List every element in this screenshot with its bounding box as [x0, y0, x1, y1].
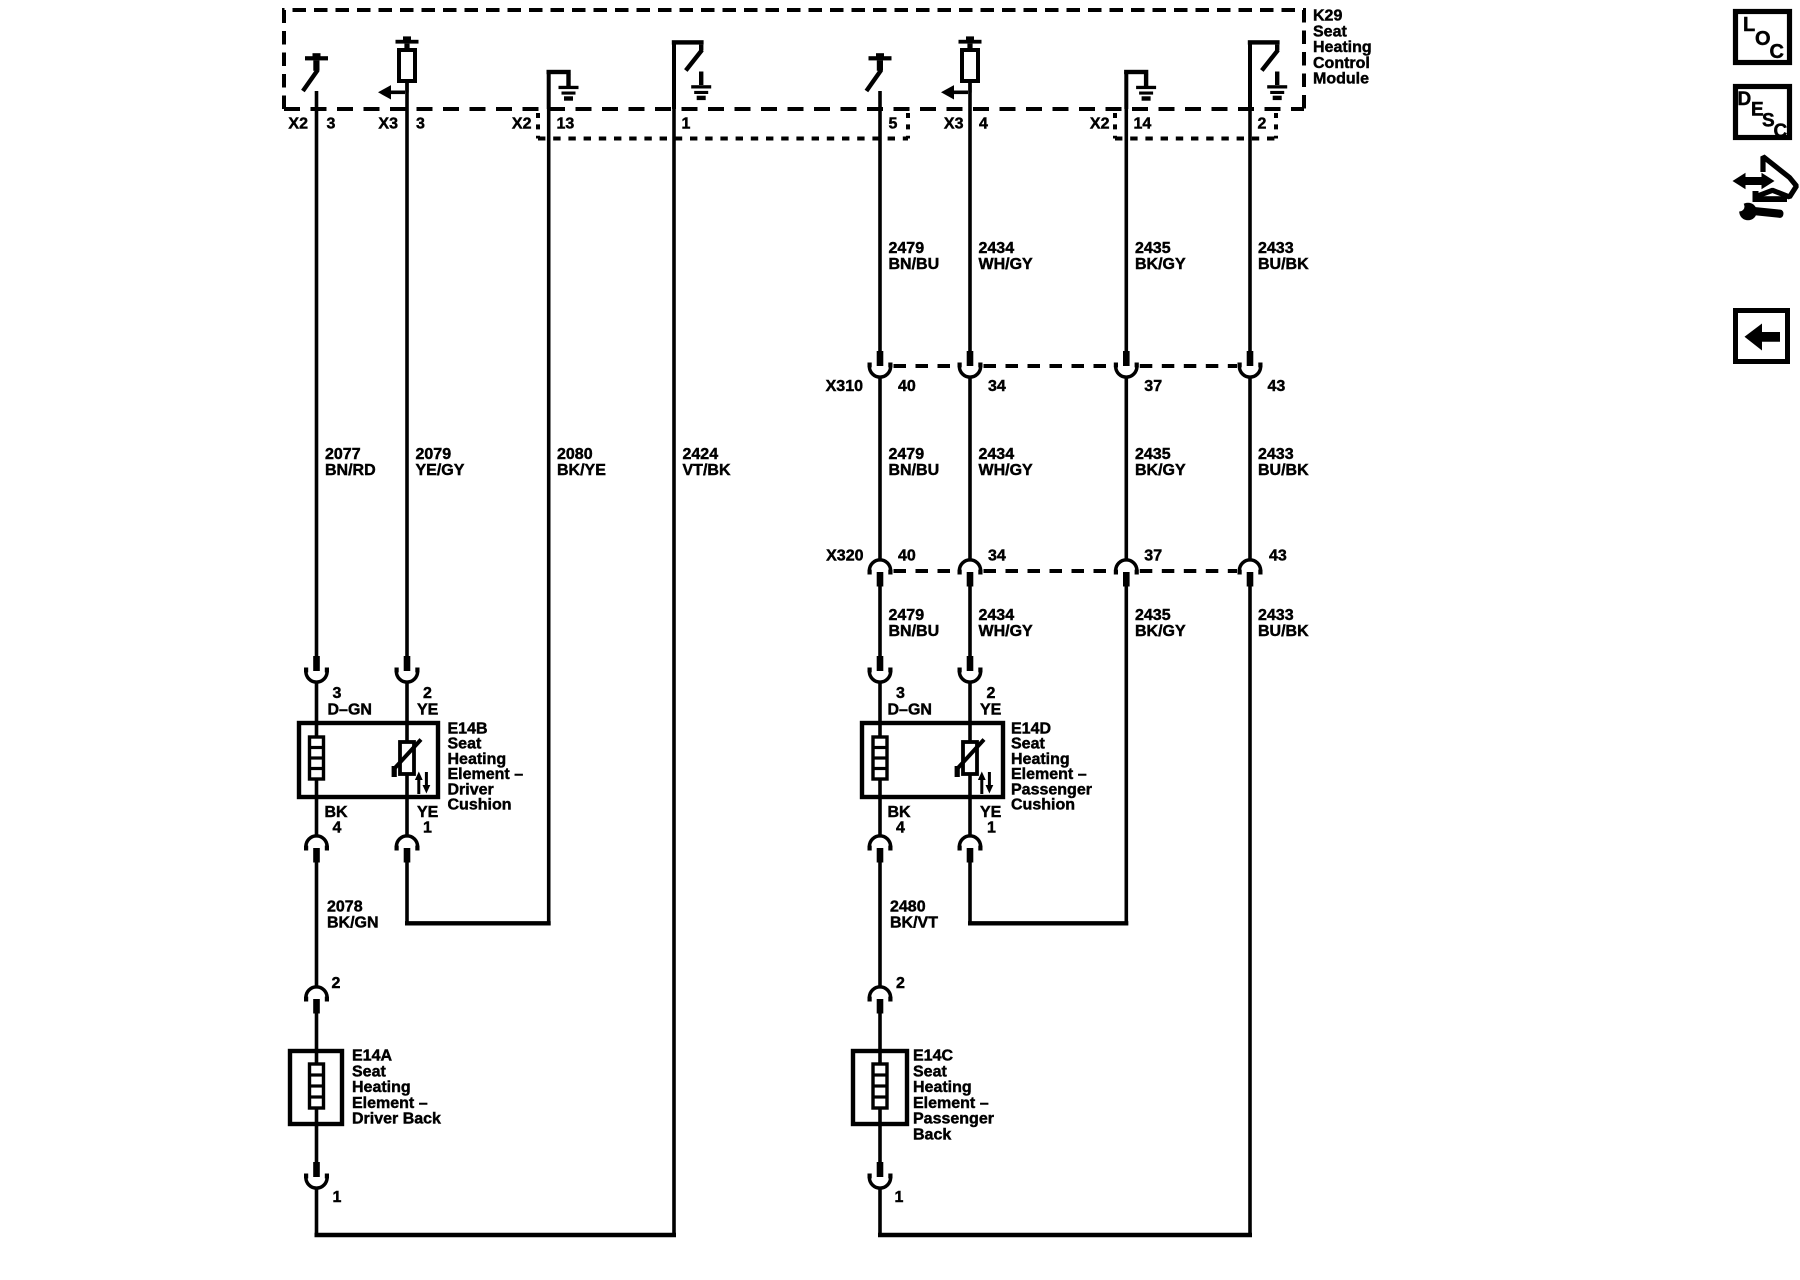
switch to ground inside module at pin X2-2 — [1248, 40, 1287, 100]
connector X2 dotted box (pins 13, 1, 5) — [538, 113, 908, 139]
wire 2433 BU/BK X310 to X320 — [1248, 378, 1252, 561]
resistor with arrow inside module at pin X3-3 — [378, 36, 419, 99]
svg-text:2434: 2434 — [979, 446, 1015, 463]
label E14A Seat Heating Element - Driver Back — [352, 1048, 441, 1128]
wire 2080 BK/YE from X2-13 down — [547, 109, 551, 925]
svg-text:BK/GN: BK/GN — [327, 915, 379, 932]
svg-text:YE: YE — [980, 702, 1002, 719]
svg-text:X2: X2 — [288, 116, 308, 133]
wire 2079 YE/GY from X3-3 to E14B pin 2 — [405, 109, 409, 656]
svg-text:Element –: Element – — [352, 1095, 428, 1112]
inline connector E14B pin 3 — [304, 656, 329, 682]
svg-text:1: 1 — [895, 1189, 904, 1206]
switch inside module at pin X2-5 — [866, 53, 891, 91]
label E14B pin 1 YE — [417, 804, 439, 837]
svg-text:5: 5 — [889, 116, 898, 133]
svg-text:3: 3 — [333, 685, 342, 702]
svg-text:2434: 2434 — [979, 607, 1015, 624]
label E14D pin 1 YE — [980, 804, 1002, 837]
ground inside module at pin X2-13 — [547, 70, 579, 101]
connector X320 pin 43 — [1238, 560, 1263, 587]
svg-text:2: 2 — [332, 975, 341, 992]
wire 2078 BK/GN E14B pin 4 down — [315, 863, 319, 987]
wire 2434 WH/GY X320 to E14D pin 2 — [968, 586, 972, 656]
svg-text:YE/GY: YE/GY — [416, 462, 465, 479]
wire 2435 BK/GY from X2-14 to X310-37 — [1125, 109, 1129, 352]
wire from switch X2-5 — [878, 91, 882, 109]
wire from box bottom to inline connector — [405, 797, 409, 837]
wire YE loop E14B pin 1 to X2-13 — [405, 863, 551, 926]
svg-text:Driver Back: Driver Back — [352, 1111, 441, 1128]
wire 2433 BU/BK from X2-2 to X310-43 — [1248, 109, 1252, 352]
svg-text:14: 14 — [1134, 116, 1152, 133]
svg-text:3: 3 — [416, 116, 425, 133]
inline connector E14C pin 2 — [868, 987, 893, 1014]
heating element box E14C — [853, 1051, 907, 1124]
heating element symbol E14C — [873, 1064, 887, 1108]
svg-text:BN/BU: BN/BU — [889, 623, 940, 640]
svg-text:BN/RD: BN/RD — [325, 462, 376, 479]
wire 2435 BK/GY X320 down — [1125, 586, 1129, 925]
svg-text:2433: 2433 — [1258, 607, 1294, 624]
svg-text:40: 40 — [898, 548, 916, 565]
svg-text:BK: BK — [888, 804, 912, 821]
svg-text:Cushion: Cushion — [1011, 797, 1075, 814]
svg-text:2080: 2080 — [557, 446, 593, 463]
wire into heating element box — [968, 683, 972, 724]
svg-text:37: 37 — [1144, 378, 1162, 395]
label E14B pin 3 D-GN — [328, 685, 372, 719]
heating element box E14B — [299, 723, 438, 797]
svg-text:37: 37 — [1144, 548, 1162, 565]
svg-text:O: O — [1755, 28, 1771, 50]
inline connector E14B pin 1 — [395, 836, 420, 863]
ground inside module at pin X2-14 — [1124, 70, 1156, 101]
svg-text:34: 34 — [988, 378, 1006, 395]
wire to ground inside module at pin X2-14 — [1124, 72, 1128, 109]
wire from box bottom to inline connector — [878, 797, 882, 837]
wire from switch X2-3 — [315, 91, 319, 109]
wire from switch inside module at pin X2-1 — [672, 42, 676, 109]
heating element box E14A — [290, 1051, 342, 1124]
svg-text:E14A: E14A — [352, 1048, 392, 1065]
thermistor symbol E14D — [955, 740, 984, 778]
connector X310 pin 43 — [1238, 351, 1263, 377]
svg-text:1: 1 — [682, 116, 691, 133]
svg-text:BN/BU: BN/BU — [889, 462, 940, 479]
svg-text:BU/BK: BU/BK — [1258, 623, 1309, 640]
wire into heating element box — [315, 683, 319, 724]
thermistor symbol E14B — [392, 740, 421, 778]
wire E14C pin 1 return to X2-2 — [878, 1189, 1252, 1238]
wire connector to E14A box — [315, 1012, 319, 1051]
connector X320 pin 40 — [868, 560, 893, 587]
wire connector to E14C box — [878, 1012, 882, 1051]
wire 2479 BN/BU X320 to E14D pin 3 — [878, 586, 882, 656]
svg-text:X2: X2 — [512, 116, 532, 133]
module K29 Seat Heating Control Module dashed box — [284, 10, 1304, 109]
svg-text:2424: 2424 — [683, 446, 719, 463]
svg-text:X2: X2 — [1090, 116, 1110, 133]
svg-text:Cushion: Cushion — [448, 797, 512, 814]
label E14B pin 4 BK — [325, 804, 349, 837]
svg-text:34: 34 — [988, 548, 1006, 565]
svg-text:1: 1 — [333, 1189, 342, 1206]
svg-text:1: 1 — [987, 820, 996, 837]
svg-text:BU/BK: BU/BK — [1258, 462, 1309, 479]
wire E14B element to box edges — [317, 723, 408, 797]
svg-text:43: 43 — [1269, 548, 1287, 565]
svg-text:D: D — [1738, 89, 1752, 110]
wire 2424 VT/BK from X2-1 down — [672, 109, 676, 1237]
wire from switch inside module at pin X2-2 — [1248, 42, 1252, 109]
label X2 pin 14 — [1090, 116, 1151, 133]
inline connector E14A pin 1 — [304, 1162, 329, 1188]
wire E14A element to box edges — [315, 1051, 319, 1124]
wire from resistor X3-4 — [968, 81, 972, 109]
connector X320 pin 34 — [958, 560, 983, 587]
svg-text:K29: K29 — [1313, 8, 1342, 25]
svg-text:BK/VT: BK/VT — [890, 915, 938, 932]
svg-text:Heating: Heating — [913, 1079, 972, 1096]
svg-text:WH/GY: WH/GY — [979, 623, 1034, 640]
svg-text:2: 2 — [1258, 116, 1267, 133]
svg-text:X320: X320 — [826, 548, 863, 565]
wire into heating element box — [405, 683, 409, 724]
svg-text:Seat: Seat — [913, 1063, 947, 1080]
svg-text:WH/GY: WH/GY — [979, 256, 1034, 273]
svg-text:BN/BU: BN/BU — [889, 256, 940, 273]
wire from box bottom to inline connector — [968, 797, 972, 837]
svg-text:4: 4 — [333, 820, 342, 837]
svg-text:Module: Module — [1313, 71, 1369, 88]
svg-text:Heating: Heating — [1313, 39, 1372, 56]
svg-text:2434: 2434 — [979, 240, 1015, 257]
svg-text:4: 4 — [979, 116, 988, 133]
svg-text:X310: X310 — [826, 378, 863, 395]
svg-text:2479: 2479 — [889, 607, 925, 624]
heating element box E14D — [862, 723, 1003, 797]
label E14C Seat Heating Element - Passenger Back — [913, 1048, 994, 1144]
svg-text:2079: 2079 — [416, 446, 452, 463]
inline connector E14D pin 4 — [868, 836, 893, 863]
inline connector E14D pin 3 — [868, 656, 893, 682]
wire YE loop E14D pin 1 to X2-14 — [968, 863, 1128, 926]
svg-text:2435: 2435 — [1135, 607, 1171, 624]
wire from resistor X3-3 — [405, 81, 409, 109]
label X2 pin 3 — [288, 116, 335, 133]
inline connector E14B pin 2 — [395, 656, 420, 682]
switch inside module at pin X2-3 — [303, 53, 328, 91]
inline connector E14D pin 1 — [958, 836, 983, 863]
wire E14A pin 1 return to X2-1 — [315, 1189, 677, 1238]
wire 2077 BN/RD from X2-3 to E14B pin 3 — [315, 109, 319, 656]
svg-text:2435: 2435 — [1135, 240, 1171, 257]
heating element symbol E14A — [310, 1064, 324, 1108]
label E14D pin 2 YE — [980, 685, 1002, 719]
inline connector E14B pin 4 — [304, 836, 329, 863]
svg-text:Back: Back — [913, 1127, 951, 1144]
connector X320 pin 37 — [1114, 560, 1139, 587]
svg-text:Seat: Seat — [1313, 23, 1347, 40]
label E14D pin 3 D-GN — [888, 685, 932, 719]
svg-text:Heating: Heating — [352, 1079, 411, 1096]
svg-text:2: 2 — [987, 685, 996, 702]
label X2 pin 13 — [512, 116, 574, 133]
svg-text:D–GN: D–GN — [328, 702, 372, 719]
label E14D pin 4 BK — [888, 804, 912, 837]
inline connector E14A pin 2 — [304, 987, 329, 1014]
svg-text:2479: 2479 — [889, 240, 925, 257]
svg-text:YE: YE — [980, 804, 1002, 821]
svg-text:BK/YE: BK/YE — [557, 462, 606, 479]
svg-text:Control: Control — [1313, 55, 1370, 72]
svg-text:2480: 2480 — [890, 899, 926, 916]
wire E14D element to box edges — [880, 723, 970, 797]
svg-text:BU/BK: BU/BK — [1258, 256, 1309, 273]
svg-text:D–GN: D–GN — [888, 702, 932, 719]
wire 2479 BN/BU X310 to X320 — [878, 378, 882, 561]
icon jump arrows with wrench — [1733, 157, 1797, 221]
svg-text:VT/BK: VT/BK — [683, 462, 731, 479]
wire E14C element to box edges — [878, 1051, 882, 1124]
wire to ground inside module at pin X2-13 — [547, 72, 551, 109]
svg-text:2077: 2077 — [325, 446, 361, 463]
connector X320 dashed line — [894, 569, 1238, 573]
svg-text:X3: X3 — [378, 116, 398, 133]
svg-text:BK/GY: BK/GY — [1135, 623, 1186, 640]
resistor with arrow inside module at pin X3-4 — [941, 36, 982, 99]
label X3 pin 4 — [944, 116, 988, 133]
svg-text:43: 43 — [1268, 378, 1286, 395]
wire E14C box to pin 1 connector — [878, 1124, 882, 1162]
connector X310 pin 37 — [1114, 351, 1139, 377]
connector X310 pin 34 — [958, 351, 983, 377]
svg-text:40: 40 — [898, 378, 916, 395]
icon box back arrow — [1736, 311, 1788, 362]
inline connector E14D pin 2 — [958, 656, 983, 682]
svg-text:2479: 2479 — [889, 446, 925, 463]
heating element symbol E14D — [873, 737, 887, 779]
connector X2 dotted box (pins 14, 2) — [1115, 113, 1276, 139]
svg-text:2: 2 — [423, 685, 432, 702]
label E14D Seat Heating Element - Passenger Cushion — [1011, 721, 1092, 814]
svg-text:YE: YE — [417, 804, 439, 821]
svg-text:BK: BK — [325, 804, 349, 821]
svg-text:C: C — [1770, 41, 1784, 63]
inline connector E14C pin 1 — [868, 1162, 893, 1188]
svg-text:2078: 2078 — [327, 899, 363, 916]
up/down arrows E14B — [415, 772, 430, 795]
icon box DESC — [1736, 87, 1790, 143]
connector X310 pin 40 — [868, 351, 893, 377]
svg-text:YE: YE — [417, 702, 439, 719]
label E14B Seat Heating Element - Driver Cushion — [448, 721, 524, 814]
wire 2435 BK/GY X310 to X320 — [1125, 378, 1129, 561]
svg-text:BK/GY: BK/GY — [1135, 462, 1186, 479]
wire from box bottom to inline connector — [315, 797, 319, 837]
wire 2434 WH/GY X310 to X320 — [968, 378, 972, 561]
svg-text:3: 3 — [327, 116, 336, 133]
svg-text:1: 1 — [423, 820, 432, 837]
label K29 Seat Heating Control Module — [1313, 8, 1372, 88]
wire 2479 BN/BU from X2-5 to X310-40 — [878, 109, 882, 352]
svg-text:C: C — [1774, 121, 1788, 142]
wire 2433 BU/BK X320 down — [1248, 586, 1252, 1237]
svg-text:WH/GY: WH/GY — [979, 462, 1034, 479]
wire 2480 BK/VT E14D pin 4 down — [878, 863, 882, 987]
svg-text:X3: X3 — [944, 116, 964, 133]
label X3 pin 3 — [378, 116, 425, 133]
switch to ground inside module at pin X2-1 — [672, 40, 711, 100]
wire E14A box to pin 1 connector — [315, 1124, 319, 1162]
svg-text:4: 4 — [896, 820, 905, 837]
svg-text:2: 2 — [896, 975, 905, 992]
wire into heating element box — [878, 683, 882, 724]
svg-text:BK/GY: BK/GY — [1135, 256, 1186, 273]
svg-text:13: 13 — [557, 116, 575, 133]
svg-text:2433: 2433 — [1258, 240, 1294, 257]
svg-text:Element –: Element – — [913, 1095, 989, 1112]
wire 2434 WH/GY from X3-4 to X310-34 — [968, 109, 972, 352]
label E14B pin 2 YE — [417, 685, 439, 719]
svg-text:2435: 2435 — [1135, 446, 1171, 463]
svg-text:2433: 2433 — [1258, 446, 1294, 463]
svg-text:E14C: E14C — [913, 1048, 953, 1065]
svg-text:Seat: Seat — [352, 1063, 386, 1080]
svg-text:L: L — [1743, 14, 1755, 36]
heating element symbol E14B — [310, 737, 324, 779]
svg-text:Passenger: Passenger — [913, 1111, 994, 1128]
icon box LOC — [1736, 12, 1790, 64]
up/down arrows E14D — [978, 772, 993, 795]
svg-text:3: 3 — [896, 685, 905, 702]
connector X310 dashed line — [894, 364, 1238, 368]
